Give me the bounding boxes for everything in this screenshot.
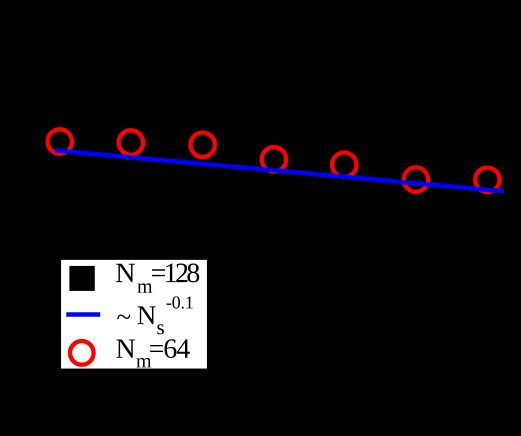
legend text row2-s: "s" (157, 324, 164, 334)
legend text row1-eq128: "=128" (152, 263, 199, 282)
legend text row2-tilde: "~" (117, 314, 130, 319)
data point circle 4 (Ns=64) (262, 147, 286, 171)
data point circle 1 (Ns=8) (48, 129, 72, 153)
legend text row2-sup: "-0.1" (167, 296, 193, 308)
legend text row1-N: "N" (116, 264, 135, 282)
data point circle 5 (Ns=128) (332, 153, 356, 177)
data point circle 7 (Ns=512) (475, 168, 499, 192)
legend text row3-N: "N" (116, 339, 135, 357)
legend text row3-m: "m" (136, 358, 151, 367)
data point circle 2 (Ns=16) (119, 130, 143, 154)
legend text row1-m: "m" (137, 283, 152, 292)
data point circle 6 (Ns=256) (404, 167, 428, 191)
legend marker: black square (Nm=128) (69, 266, 94, 291)
legend marker: red circle (Nm=64) (70, 341, 94, 365)
legend text row3-eq64: "=64" (150, 339, 190, 358)
legend marker: blue line sample (66, 312, 100, 316)
legend text row2-N: "N" (138, 306, 156, 324)
fit line ~ Ns^-0.1 (55, 150, 504, 191)
legend box (60, 259, 208, 370)
data point circle 3 (Ns=32) (191, 133, 215, 157)
